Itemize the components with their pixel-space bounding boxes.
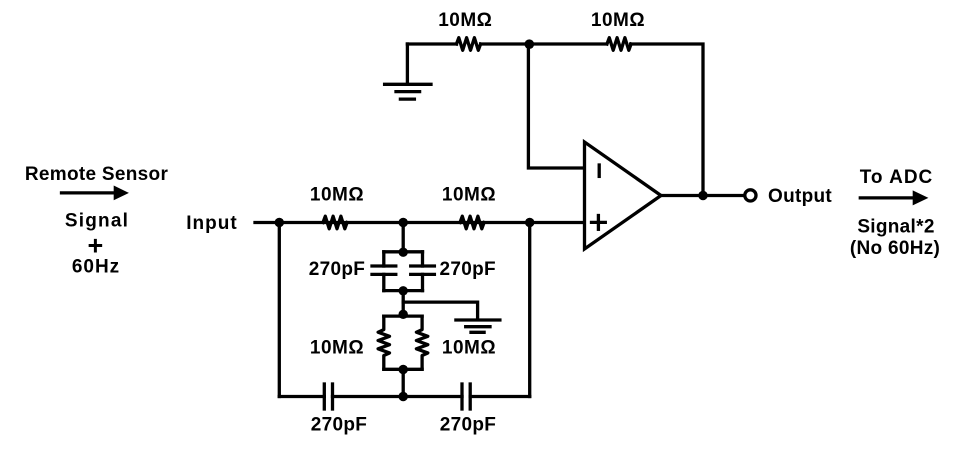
wire: op-amp output <box>661 194 744 197</box>
arrow: to ADC <box>860 196 914 199</box>
ground G1 symbol <box>385 83 431 86</box>
svg-text:Output: Output <box>768 186 832 207</box>
svg-text:To ADC: To ADC <box>860 167 934 188</box>
ground G2 symbol <box>456 318 500 321</box>
wire: left column down <box>278 223 281 397</box>
resistor 10M R-left vertical <box>378 316 389 369</box>
resistor pair box bottom bar <box>384 368 422 371</box>
capacitor C 270pF left plates <box>372 264 396 267</box>
svg-text:10MΩ: 10MΩ <box>442 338 496 359</box>
junction dot: input node <box>275 218 284 227</box>
op-amp minus marker <box>598 165 601 176</box>
resistor 10M R-right vertical <box>416 316 427 369</box>
wire: branch to ground G2 <box>403 302 477 320</box>
arrow: remote sensor <box>62 191 117 194</box>
junction dot: resistor pair bottom <box>399 365 408 374</box>
junction dot: resistor pair top <box>399 310 408 319</box>
capacitor C 270pF left branch top stub <box>382 252 385 266</box>
svg-text:Signal*2: Signal*2 <box>857 217 934 238</box>
wire: bottom rail left segment <box>279 395 324 398</box>
svg-text:270pF: 270pF <box>439 259 495 280</box>
wire: right column down <box>528 223 531 397</box>
wire: center stem to cap pair <box>402 223 405 252</box>
wire: top rail right segment + down to output node <box>631 44 703 196</box>
junction dot: mid node <box>399 218 408 227</box>
ground G1 stem (top left) <box>406 44 409 84</box>
wire: top feedback rail left segment <box>407 42 456 45</box>
op-amp plus marker <box>592 221 606 224</box>
output terminal circle <box>745 190 756 201</box>
wire: stem between cap pair and resistor pair <box>402 291 405 317</box>
svg-text:10MΩ: 10MΩ <box>591 10 645 31</box>
capacitor C 270pF bottom-right plates <box>460 384 463 409</box>
svg-text:60Hz: 60Hz <box>72 257 120 278</box>
capacitor pair box top bar <box>384 250 423 253</box>
svg-text:(No 60Hz): (No 60Hz) <box>850 238 940 259</box>
capacitor C 270pF right bottom stub <box>421 274 424 290</box>
svg-text:Signal: Signal <box>65 211 129 232</box>
svg-text:10MΩ: 10MΩ <box>438 10 492 31</box>
svg-text:Input: Input <box>186 213 237 234</box>
junction dot: top rail <box>525 39 535 49</box>
resistor 10M R-top-left <box>457 38 481 51</box>
wire: inverting input from top junction down <box>528 44 584 168</box>
svg-text:270pF: 270pF <box>309 259 365 280</box>
resistor 10M R-mid-left <box>323 216 347 229</box>
capacitor C 270pF bottom-left plates <box>323 384 326 409</box>
capacitor C 270pF right branch top stub <box>421 252 424 266</box>
svg-text:10MΩ: 10MΩ <box>310 338 364 359</box>
wire: bottom rail middle segment <box>333 395 463 398</box>
svg-text:270pF: 270pF <box>311 415 367 436</box>
svg-text:Remote Sensor: Remote Sensor <box>25 164 169 185</box>
junction dot: cap pair top <box>399 248 408 257</box>
wire: main input rail <box>255 221 585 224</box>
svg-text:270pF: 270pF <box>440 415 496 436</box>
wire: stem from resistor pair to bottom rail <box>402 369 405 396</box>
svg-text:10MΩ: 10MΩ <box>442 185 496 206</box>
wire: top rail middle segment <box>481 42 607 45</box>
capacitor C 270pF right plates <box>411 264 435 267</box>
junction dot: bottom rail <box>399 392 408 401</box>
arrowhead: remote sensor arrow <box>114 186 129 201</box>
svg-text:10MΩ: 10MΩ <box>310 185 364 206</box>
wire: bottom rail right segment <box>470 395 530 398</box>
resistor 10M R-top-right <box>607 38 631 51</box>
resistor 10M R-mid-right <box>460 216 484 229</box>
arrowhead: to ADC arrow <box>913 190 929 205</box>
resistor pair box top bar <box>384 314 422 317</box>
capacitor pair box bottom bar <box>384 289 423 292</box>
capacitor C 270pF left bottom stub <box>382 274 385 290</box>
junction dot: right node <box>525 218 534 227</box>
junction dot: cap pair bottom <box>399 286 408 295</box>
op-amp U1 triangle <box>585 142 662 249</box>
junction dot: output node <box>698 191 707 200</box>
